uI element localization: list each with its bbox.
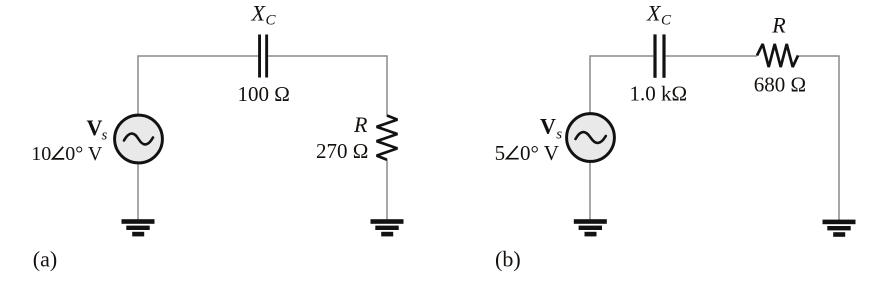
- angle symbol in 10 angle 0 V (a): [53, 147, 65, 159]
- svg-text:(b): (b): [495, 246, 521, 271]
- resistor R (a) zigzag: [377, 116, 398, 160]
- svg-text:0° V: 0° V: [520, 141, 559, 165]
- angle symbol in 5 angle 0 V (b): [507, 146, 519, 159]
- svg-text:100 Ω: 100 Ω: [238, 82, 290, 106]
- svg-text:R: R: [353, 112, 368, 137]
- capacitor XC (b) plates: [653, 34, 665, 77]
- wire: circuit (a) source bottom to ground: [137, 163, 139, 221]
- label Vs (a): [87, 115, 108, 144]
- svg-text:270 Ω: 270 Ω: [316, 139, 368, 163]
- wire: circuit (a) top-left segment with corner to source: [138, 56, 258, 115]
- label XC (a): [251, 0, 277, 28]
- label Vs (b): [540, 114, 562, 143]
- value label 5 angle 0 V (b): [495, 141, 559, 165]
- svg-text:(a): (a): [33, 246, 57, 271]
- ground: circuit (b) under right branch: [823, 220, 856, 237]
- wire: circuit (a) top-right segment with corner to resistor: [268, 56, 387, 116]
- value label 10 angle 0 V (a): [31, 143, 103, 165]
- svg-text:V: V: [87, 115, 103, 140]
- wire: circuit (b) between capacitor and resistor: [666, 55, 757, 57]
- AC source (a) sine wave: [124, 134, 153, 145]
- svg-text:X: X: [251, 0, 267, 25]
- wire: circuit (a) resistor bottom to ground: [386, 160, 388, 221]
- resistor R (b) zigzag: [757, 44, 798, 67]
- svg-text:C: C: [266, 13, 277, 29]
- label XC (b): [646, 0, 672, 28]
- ground: circuit (a) under source: [122, 219, 155, 236]
- AC source V_s (b) circle: [567, 114, 615, 162]
- wire: circuit (b) source bottom to ground: [589, 162, 591, 221]
- svg-text:s: s: [102, 128, 108, 144]
- ground: circuit (a) under resistor: [371, 219, 404, 236]
- AC source (b) sine wave: [576, 132, 606, 143]
- svg-text:V: V: [540, 114, 556, 139]
- capacitor XC (a) plates: [258, 35, 268, 78]
- svg-text:5: 5: [495, 141, 506, 165]
- svg-text:C: C: [661, 13, 672, 29]
- wire: circuit (b) resistor to right corner down to ground: [798, 56, 839, 220]
- svg-text:X: X: [646, 0, 662, 25]
- svg-text:R: R: [771, 13, 786, 38]
- svg-text:0° V: 0° V: [65, 143, 103, 165]
- wire: circuit (b) top-left segment with corner to source: [590, 56, 653, 114]
- svg-text:10: 10: [31, 143, 51, 165]
- svg-text:680 Ω: 680 Ω: [754, 73, 806, 97]
- AC source V_s (a) circle: [115, 115, 163, 163]
- ground: circuit (b) under source: [574, 219, 607, 236]
- svg-text:1.0 kΩ: 1.0 kΩ: [630, 82, 688, 106]
